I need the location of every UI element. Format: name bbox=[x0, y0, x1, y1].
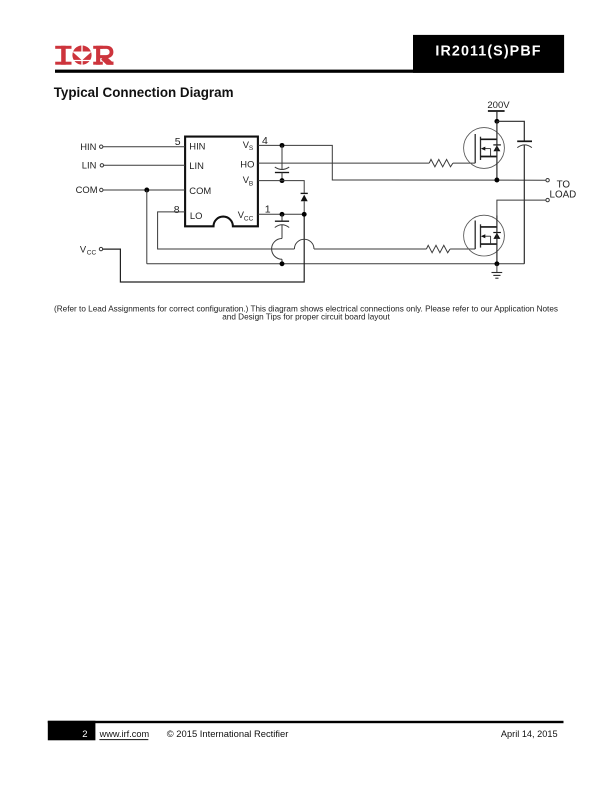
wire R1 to Q1 gate bbox=[453, 162, 475, 164]
resistor R1 high-side gate bbox=[429, 159, 453, 166]
capacitor C2 bottom lead bbox=[281, 225, 283, 239]
transistor Q1 high-side MOSFET bbox=[464, 128, 505, 169]
svg-text:LOAD: LOAD bbox=[550, 190, 577, 201]
capacitor C3 bus flat plate bbox=[517, 140, 532, 142]
IR logo rectifier mark bbox=[72, 45, 92, 65]
node VS junction bbox=[280, 143, 285, 148]
capacitor C1 curved plate bbox=[275, 167, 289, 169]
svg-text:IR2011(S)PBF: IR2011(S)PBF bbox=[435, 44, 541, 60]
wire C3 to bottom rail bbox=[523, 145, 525, 264]
svg-text:LO: LO bbox=[190, 210, 203, 221]
svg-text:CC: CC bbox=[87, 250, 97, 257]
node Q2 source ground junction bbox=[494, 261, 499, 266]
diode D1 bootstrap triangle bbox=[301, 195, 308, 202]
svg-text:COM: COM bbox=[76, 184, 98, 195]
wire VS pin 4 to switch node bbox=[258, 145, 546, 180]
svg-text:and Design Tips for proper cir: and Design Tips for proper circuit board… bbox=[222, 313, 390, 322]
wire C2 lead to bottom rail bbox=[281, 259, 283, 264]
svg-text:HIN: HIN bbox=[80, 141, 96, 152]
capacitor C1 flat plate bbox=[275, 172, 289, 174]
svg-text:www.irf.com: www.irf.com bbox=[99, 729, 150, 739]
capacitor C3 bus curved plate bbox=[517, 145, 532, 148]
svg-text:COM: COM bbox=[189, 185, 211, 196]
wire R2 to Q2 gate bbox=[450, 248, 475, 250]
svg-text:LIN: LIN bbox=[82, 160, 97, 171]
capacitor C2 curved plate bbox=[275, 225, 289, 228]
node COM junction bbox=[144, 188, 149, 193]
node C2 bottom rail junction bbox=[280, 261, 285, 266]
capacitor C2 flat plate bbox=[275, 220, 289, 222]
svg-text:© 2015 International Rectifier: © 2015 International Rectifier bbox=[167, 728, 289, 739]
wire Q1 drain bbox=[496, 121, 498, 180]
svg-text:CC: CC bbox=[244, 216, 254, 223]
transistor Q2 low-side MOSFET bbox=[464, 215, 505, 256]
svg-text:2: 2 bbox=[82, 729, 87, 740]
svg-text:1: 1 bbox=[265, 203, 271, 215]
wire hop of LO line over VCC vertical bbox=[294, 239, 314, 249]
wire D1 anode to VCC pin line bbox=[303, 201, 305, 214]
header rule bbox=[55, 70, 564, 73]
wire LO route bbox=[158, 212, 295, 249]
svg-text:HO: HO bbox=[240, 159, 254, 170]
wire COM to IC bbox=[103, 189, 185, 191]
terminal LOAD bbox=[546, 198, 549, 201]
wire COM drop to bottom rail bbox=[146, 190, 148, 264]
wire HIN to IC bbox=[103, 146, 185, 148]
node top rail junction bbox=[494, 119, 499, 124]
capacitor C2 VCC top lead bbox=[281, 214, 283, 221]
wire HO pin to gate resistor bbox=[258, 162, 429, 164]
node VB junction bbox=[280, 178, 285, 183]
terminal TO bbox=[546, 179, 549, 182]
svg-text:HIN: HIN bbox=[189, 140, 205, 151]
wire bottom rail COM bbox=[147, 263, 525, 265]
capacitor C1 bootstrap top lead bbox=[281, 145, 283, 169]
diode D1 bootstrap cathode bar bbox=[301, 192, 308, 194]
node VCC diode junction bbox=[302, 212, 307, 217]
wire VB pin to diode bbox=[258, 181, 304, 193]
svg-text:B: B bbox=[249, 181, 253, 188]
node Q1 source switch junction bbox=[494, 178, 499, 183]
svg-text:Typical Connection Diagram: Typical Connection Diagram bbox=[54, 85, 234, 100]
svg-text:LIN: LIN bbox=[189, 160, 204, 171]
IR logo letter I bbox=[55, 46, 71, 65]
node VCC cap junction bbox=[280, 212, 285, 217]
wire LIN to IC bbox=[104, 164, 186, 166]
IR logo letter R bbox=[93, 46, 113, 65]
wire VCC supply route bbox=[103, 214, 305, 282]
wire LOAD to Q2 drain bbox=[497, 200, 546, 215]
svg-text:S: S bbox=[249, 145, 254, 152]
wire Q2 drain-source vertical bbox=[496, 216, 498, 264]
part number box IR2011(S)PBF bbox=[413, 35, 564, 73]
wire top rail to bus capacitor bbox=[497, 121, 524, 140]
wire hop of C2 lead over LO line bbox=[272, 239, 282, 260]
wire 200V stem bbox=[496, 112, 498, 122]
svg-text:April 14, 2015: April 14, 2015 bbox=[501, 729, 558, 739]
capacitor C1 bottom lead bbox=[281, 173, 283, 181]
svg-text:5: 5 bbox=[175, 136, 181, 148]
IC U1 gate driver body bbox=[185, 137, 258, 227]
resistor R2 low-side gate bbox=[426, 245, 450, 252]
ground bbox=[492, 264, 503, 278]
svg-text:8: 8 bbox=[174, 204, 180, 216]
wire LO to gate resistor bbox=[314, 248, 426, 250]
wire VCC pin 1 bbox=[258, 213, 304, 215]
svg-text:200V: 200V bbox=[487, 100, 510, 111]
